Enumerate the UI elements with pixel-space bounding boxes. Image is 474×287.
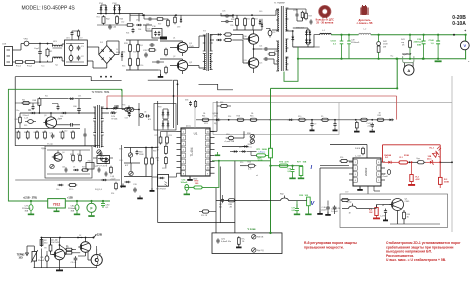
transistor Q-1 xyxy=(392,199,404,211)
wire fan bottom rail xyxy=(34,267,97,269)
svg-text:4,7К: 4,7К xyxy=(285,161,290,164)
transistor Q11 main xyxy=(248,58,258,68)
svg-text:V: V xyxy=(463,43,466,48)
components under snubber xyxy=(15,179,120,181)
resistor R38 xyxy=(165,49,168,55)
svg-text:D5б: D5б xyxy=(56,189,59,191)
section box left vertical xyxy=(194,102,196,128)
capacitor C46 xyxy=(105,172,108,174)
svg-text:R16: R16 xyxy=(237,116,240,118)
resistor R42 xyxy=(409,41,412,48)
svg-text:4: 4 xyxy=(355,180,356,182)
pot RV72b xyxy=(252,248,256,252)
resistor R16 xyxy=(237,118,243,121)
svg-text:R98: R98 xyxy=(247,133,250,135)
wire green I row xyxy=(271,165,304,167)
resistor R53 xyxy=(102,158,108,161)
transistor Q1 driver xyxy=(177,42,187,52)
svg-text:КД1: КД1 xyxy=(214,123,217,125)
wire prot row xyxy=(342,199,391,201)
diode PS2 xyxy=(114,5,116,14)
resistor R30 xyxy=(225,33,231,36)
svg-text:R10: R10 xyxy=(298,116,301,118)
resistor R50 xyxy=(403,212,406,219)
transistor Q5 fan xyxy=(54,249,65,260)
resistor Rt xyxy=(49,245,52,251)
wire rectifier to L1 xyxy=(286,30,293,32)
svg-text:ДТиЦ: ДТиЦ xyxy=(186,126,191,128)
capacitor C105 xyxy=(132,29,135,31)
capacitor C35 xyxy=(148,17,150,20)
relay box Y5B xyxy=(86,163,94,170)
capacitor CX1 xyxy=(77,46,81,48)
box snubber xyxy=(45,146,92,178)
pot RV1 green xyxy=(269,148,273,158)
resistor R71 green xyxy=(257,154,266,157)
capacitor C25 xyxy=(264,57,266,61)
inductor L2 xyxy=(359,33,371,34)
ammeter A xyxy=(404,65,414,75)
resistor R11 xyxy=(202,118,208,121)
diode D-1 red xyxy=(388,161,391,164)
svg-text:ЛР1 РС817В: ЛР1 РС817В xyxy=(97,165,108,167)
resistor R67 xyxy=(194,102,196,107)
svg-text:С45: С45 xyxy=(94,166,97,168)
zener ZD-1 red xyxy=(430,161,433,164)
diode D8 bus xyxy=(289,119,291,121)
diode D42 xyxy=(126,181,128,183)
svg-text:202П: 202П xyxy=(248,144,253,146)
resistor R10 bus xyxy=(299,118,305,121)
svg-text:Q3: Q3 xyxy=(44,115,46,117)
svg-text:100мФ: 100мФ xyxy=(181,181,188,184)
resistor R39v green xyxy=(307,197,311,206)
transistor Q2 driver xyxy=(177,60,187,70)
resistor R102 xyxy=(102,17,105,24)
resistor R27 xyxy=(301,12,304,18)
svg-text:ИП%об: ИП%об xyxy=(111,112,117,114)
resistor R4 fan xyxy=(66,252,72,255)
wire snubber xyxy=(47,149,90,151)
wire output rail top xyxy=(331,34,358,36)
svg-text:С10: С10 xyxy=(226,134,229,136)
resistor R64 xyxy=(151,158,154,164)
svg-text:R6: R6 xyxy=(66,246,68,248)
resistor R36 xyxy=(137,59,140,66)
svg-text:MODEL: ISO-450PP 4S: MODEL: ISO-450PP 4S xyxy=(22,6,76,12)
svg-text:АЛГ: АЛГ xyxy=(125,164,128,167)
diode D24 xyxy=(63,112,65,114)
thermistor TERM2 xyxy=(32,252,37,262)
wire to T1 primary xyxy=(269,48,278,50)
svg-text:R0б 1В: R0б 1В xyxy=(201,215,208,217)
svg-text:R26: R26 xyxy=(248,162,251,164)
capacitor C104 xyxy=(108,25,112,27)
wire +5VSB bus xyxy=(130,14,276,16)
wire red main line xyxy=(107,95,397,97)
resistor R72 xyxy=(237,238,240,245)
capacitor C77b green xyxy=(296,201,298,209)
svg-text:R-Д 1,6: R-Д 1,6 xyxy=(95,189,103,191)
diode D104 xyxy=(138,24,140,26)
resistor R75 xyxy=(159,137,162,143)
capacitor C60 xyxy=(77,108,81,110)
resistor R22 xyxy=(252,19,255,26)
svg-text:С6о: С6о xyxy=(16,110,19,112)
green hook xyxy=(121,89,123,91)
svg-text:Rдб 1Д: Rдб 1Д xyxy=(257,250,264,252)
choke photo L2 xyxy=(362,6,368,15)
diode D53 xyxy=(138,14,140,22)
diode D26 xyxy=(113,107,116,110)
wire T1 pins xyxy=(276,9,279,11)
wire green I pot xyxy=(270,88,272,148)
svg-text:R57: R57 xyxy=(158,24,161,26)
svg-text:V плав: V плав xyxy=(248,228,257,231)
resistor R49 xyxy=(19,117,22,123)
resistor Kap xyxy=(418,161,424,164)
inductor L1 xyxy=(320,33,332,34)
diode D43 xyxy=(105,159,108,162)
svg-text:С41: С41 xyxy=(50,133,53,135)
wire red T2 feed xyxy=(106,96,108,109)
svg-text:R18: R18 xyxy=(77,154,80,156)
svg-text:35В: 35В xyxy=(71,211,75,213)
diode D1 fan xyxy=(80,237,81,238)
svg-text:1: 1 xyxy=(355,162,356,164)
IC U1 TL494 xyxy=(181,128,210,176)
capacitor CX2 xyxy=(77,56,81,58)
svg-text:1N4148: 1N4148 xyxy=(384,154,392,157)
wire output rail top right xyxy=(371,34,466,36)
capacitor C24 xyxy=(264,47,266,51)
svg-text:СФ1: СФ1 xyxy=(66,37,70,40)
capacitor C90 xyxy=(102,201,104,204)
svg-text:220мкФ: 220мкФ xyxy=(23,114,30,117)
wire U2 left xyxy=(320,165,349,167)
resistor R59 xyxy=(174,17,177,23)
resistor R98 xyxy=(250,134,254,138)
resistor R1 xyxy=(46,49,49,56)
capacitor C10 mid xyxy=(228,136,233,140)
capacitor C2B xyxy=(333,206,337,208)
svg-text:D53: D53 xyxy=(136,20,139,22)
pot VR2 xyxy=(128,153,132,157)
resistor R68 xyxy=(44,132,47,138)
capacitor C3B top xyxy=(225,20,227,23)
capacitor C80 xyxy=(76,201,78,205)
wire T2 row 103 xyxy=(15,102,39,104)
capacitor C-17 xyxy=(384,210,387,212)
wire red protect top xyxy=(383,144,441,146)
fuse FUS2 xyxy=(26,61,35,64)
ground IC xyxy=(189,176,191,179)
svg-text:ИПЗ: ИПЗ xyxy=(204,123,208,125)
wire mid links xyxy=(216,101,218,131)
resistor R46b xyxy=(355,122,358,128)
resistor R20 xyxy=(236,19,239,26)
resistor R-2 red xyxy=(410,175,413,182)
LED HL-1 red xyxy=(432,151,438,157)
svg-text:R47: R47 xyxy=(24,132,27,134)
svg-text:2200мкФ: 2200мкФ xyxy=(68,207,77,210)
wire opto links xyxy=(152,176,158,178)
pot pair RV5 xyxy=(125,107,129,111)
resistor R81 xyxy=(164,146,167,153)
diode D46 xyxy=(32,112,34,114)
diode D52 xyxy=(234,150,236,152)
svg-text:R28: R28 xyxy=(309,16,312,18)
svg-text:С61: С61 xyxy=(28,110,31,112)
svg-text:СЗ5: СЗ5 xyxy=(57,119,60,121)
svg-text:ПГ10Б: ПГ10Б xyxy=(111,119,118,121)
diode D33 xyxy=(121,54,123,56)
IC U1 pins left xyxy=(177,131,182,133)
ground osc1 xyxy=(120,186,126,188)
box V plav xyxy=(212,233,282,254)
diode D22 xyxy=(261,24,263,26)
diode D2b xyxy=(116,105,117,106)
wire lower row xyxy=(15,127,80,129)
diode box left xyxy=(154,104,176,131)
svg-text:Fus2: Fus2 xyxy=(27,66,33,68)
capacitor C140 green xyxy=(437,35,439,41)
svg-text:C05: C05 xyxy=(147,29,150,31)
wire green 7912 out xyxy=(66,200,110,202)
svg-text:R68: R68 xyxy=(42,132,45,134)
pot RV72a xyxy=(252,235,256,239)
svg-text:R74: R74 xyxy=(169,135,172,137)
pot R-obr xyxy=(349,206,357,209)
svg-text:0,4мкФ 16в: 0,4мкФ 16в xyxy=(221,240,231,243)
svg-text:СигЦ: СигЦ xyxy=(247,147,252,149)
wire T3 primary xyxy=(188,47,199,49)
capacitor C45b xyxy=(98,168,101,170)
wire driver bias xyxy=(126,39,158,41)
svg-text:С24: С24 xyxy=(259,46,262,48)
svg-text:150К: 150К xyxy=(383,44,388,46)
wire to vplav xyxy=(158,222,235,224)
svg-text:TL494: TL494 xyxy=(190,147,194,156)
svg-text:R17: R17 xyxy=(70,154,73,156)
resistor R35 xyxy=(129,59,132,66)
svg-text:U1: U1 xyxy=(194,132,198,136)
svg-text:R51: R51 xyxy=(97,17,100,19)
svg-text:U вых. макс. = U стабилитрона: U вых. макс. = U стабилитрона + 5В. xyxy=(386,258,446,262)
resistor R18 xyxy=(79,155,82,161)
capacitor C75 green xyxy=(185,185,189,191)
resistor R66 xyxy=(36,132,39,138)
wire fan links xyxy=(41,238,43,246)
resistor R80 xyxy=(228,199,234,202)
svg-text:R53: R53 xyxy=(101,156,104,158)
svg-text:10В: 10В xyxy=(303,162,307,164)
resistor R43 xyxy=(377,42,381,46)
svg-text:Д1, Д6: Д1, Д6 xyxy=(51,240,58,242)
svg-text:АГ4: АГ4 xyxy=(148,118,151,121)
svg-text:R08 1В: R08 1В xyxy=(257,237,264,239)
svg-text:ЛР1 РС817: ЛР1 РС817 xyxy=(156,189,166,191)
wire U2 bottom xyxy=(367,186,369,194)
ground fan xyxy=(56,270,63,272)
rectifier D19 pair xyxy=(306,30,308,44)
svg-text:L-і U2: L-і U2 xyxy=(355,155,362,158)
resistor R104 xyxy=(127,24,133,27)
capacitor C03 xyxy=(370,123,374,125)
ground bar driver xyxy=(160,37,167,40)
svg-text:R65: R65 xyxy=(24,125,27,127)
capacitor C22 xyxy=(127,107,131,112)
pot RVh xyxy=(281,198,289,200)
capacitor C28 top xyxy=(310,20,313,22)
capacitor C1B xyxy=(327,201,329,206)
svg-text:RЦh: RЦh xyxy=(280,194,284,196)
svg-text:об: об xyxy=(256,175,258,177)
svg-text:ЛР1: ЛР1 xyxy=(162,168,165,170)
diode D20 xyxy=(259,21,262,24)
wire sense right xyxy=(440,161,452,163)
resistor R0b xyxy=(202,210,208,213)
resistor R5 fan xyxy=(66,248,72,251)
svg-text:С40: С40 xyxy=(64,131,67,133)
svg-text:R-ЮБ: R-ЮБ xyxy=(355,148,361,150)
svg-text:300В: 300В xyxy=(444,181,449,183)
svg-text:СЦ1: СЦ1 xyxy=(119,160,123,162)
svg-text:+(21В - 27В): +(21В - 27В) xyxy=(23,196,37,199)
wire mid row xyxy=(20,112,96,114)
svg-text:Q2: Q2 xyxy=(173,56,175,58)
svg-text:С35: С35 xyxy=(146,24,149,26)
svg-text:СY2: СY2 xyxy=(79,38,83,40)
capacitor C1 xyxy=(69,45,73,50)
svg-text:C3 0,1: C3 0,1 xyxy=(71,262,78,264)
svg-text:R22: R22 xyxy=(255,19,258,21)
svg-text:2200мкФ: 2200мкФ xyxy=(22,207,31,210)
capacitor Cap1 xyxy=(38,51,42,53)
svg-text:R3б: R3б xyxy=(122,66,125,68)
capacitor C29 green xyxy=(423,35,425,41)
svg-text:ТЕРМ2: ТЕРМ2 xyxy=(17,255,25,257)
resistor R58 xyxy=(167,20,170,26)
capacitor C40 xyxy=(70,123,72,127)
svg-text:R24: R24 xyxy=(274,51,277,53)
resistor R-3 red xyxy=(439,177,443,184)
svg-text:+12В: +12В xyxy=(67,196,73,199)
diode D27 right xyxy=(101,112,109,114)
svg-text:D1: D1 xyxy=(116,49,118,51)
wire main switch xyxy=(253,30,255,34)
pot VR4 xyxy=(50,164,54,168)
wire filter to bridge xyxy=(87,46,99,48)
resistor R33 xyxy=(129,45,132,52)
capacitor C103 green xyxy=(341,35,343,41)
capacitor C2B top xyxy=(225,14,227,17)
capacitor C62 xyxy=(83,133,86,135)
svg-text:0-20В: 0-20В xyxy=(452,15,466,21)
svg-text:R11: R11 xyxy=(202,116,205,118)
diode D5b xyxy=(59,184,61,186)
resistor R82 xyxy=(165,158,168,164)
svg-text:R46: R46 xyxy=(15,132,18,134)
wire dzh xyxy=(247,151,257,153)
capacitor C65 xyxy=(136,151,139,153)
svg-text:R61: R61 xyxy=(22,100,25,102)
capacitor C49 green xyxy=(348,35,350,41)
wire U2 top xyxy=(330,144,367,146)
svg-text:LM393: LM393 xyxy=(364,167,368,176)
svg-text:D21: D21 xyxy=(78,95,81,97)
capacitor C33 xyxy=(144,53,148,55)
voltmeter V xyxy=(460,41,469,50)
diode D21 xyxy=(70,97,73,100)
varistor VR1 xyxy=(24,41,29,46)
resistor R76 green xyxy=(279,164,288,167)
resistor R26 xyxy=(248,164,254,167)
capacitor C8 bus xyxy=(333,123,336,125)
svg-text:R45: R45 xyxy=(378,115,381,117)
resistor R44 xyxy=(361,118,367,121)
wire vertical to IC xyxy=(173,80,175,128)
capacitor C59 xyxy=(57,106,60,108)
box protection xyxy=(340,194,448,228)
ground U2 xyxy=(359,186,361,189)
capacitor C23 xyxy=(268,30,272,35)
svg-text:+1мкФ: +1мкФ xyxy=(110,177,116,180)
svg-text:D6: D6 xyxy=(214,116,216,118)
resistor R29 xyxy=(72,132,75,138)
pot RV6 xyxy=(139,113,143,117)
resistor R-8 red xyxy=(375,208,378,216)
svg-text:C52: C52 xyxy=(121,22,124,24)
terminal plus dot xyxy=(465,34,467,36)
svg-text:A: A xyxy=(407,68,410,73)
capacitor C76v xyxy=(216,239,219,241)
diode D28 xyxy=(115,107,116,108)
wire link2 xyxy=(148,79,173,81)
svg-text:Тюл: Тюл xyxy=(41,66,44,68)
resistor R2a xyxy=(77,31,79,36)
svg-text:+: + xyxy=(464,29,466,33)
svg-text:R17б: R17б xyxy=(69,189,73,191)
svg-text:СУ2: СУ2 xyxy=(345,192,348,194)
capacitor C55 xyxy=(133,188,137,190)
svg-text:ЦШУНТ: ЦШУНТ xyxy=(403,53,412,56)
capacitor C76 green xyxy=(292,166,294,170)
svg-text:200В: 200В xyxy=(258,160,263,162)
EMI filter box xyxy=(65,40,88,65)
AC plug X1 xyxy=(5,47,13,66)
svg-text:Fus1: Fus1 xyxy=(16,66,22,68)
svg-text:2200мкФ: 2200мкФ xyxy=(414,41,424,44)
wire V row xyxy=(216,200,268,202)
transistor Q3 xyxy=(45,117,56,128)
svg-text:Тр1: Тр1 xyxy=(55,65,58,67)
svg-text:8: 8 xyxy=(378,162,379,164)
diode D31 xyxy=(218,39,220,41)
svg-text:с линии + 5В: с линии + 5В xyxy=(357,22,373,25)
capacitor C34 xyxy=(150,43,152,47)
svg-text:R36: R36 xyxy=(133,52,136,54)
wire AC top xyxy=(16,49,21,51)
capacitor C77 xyxy=(221,199,224,201)
svg-text:D20: D20 xyxy=(259,11,262,13)
resistor R63 xyxy=(145,158,148,164)
svg-text:D2: D2 xyxy=(79,235,81,237)
svg-text:R49: R49 xyxy=(15,119,18,121)
svg-text:С44: С44 xyxy=(62,167,65,169)
resistor R74 xyxy=(166,137,169,143)
wire osc links xyxy=(124,147,158,149)
